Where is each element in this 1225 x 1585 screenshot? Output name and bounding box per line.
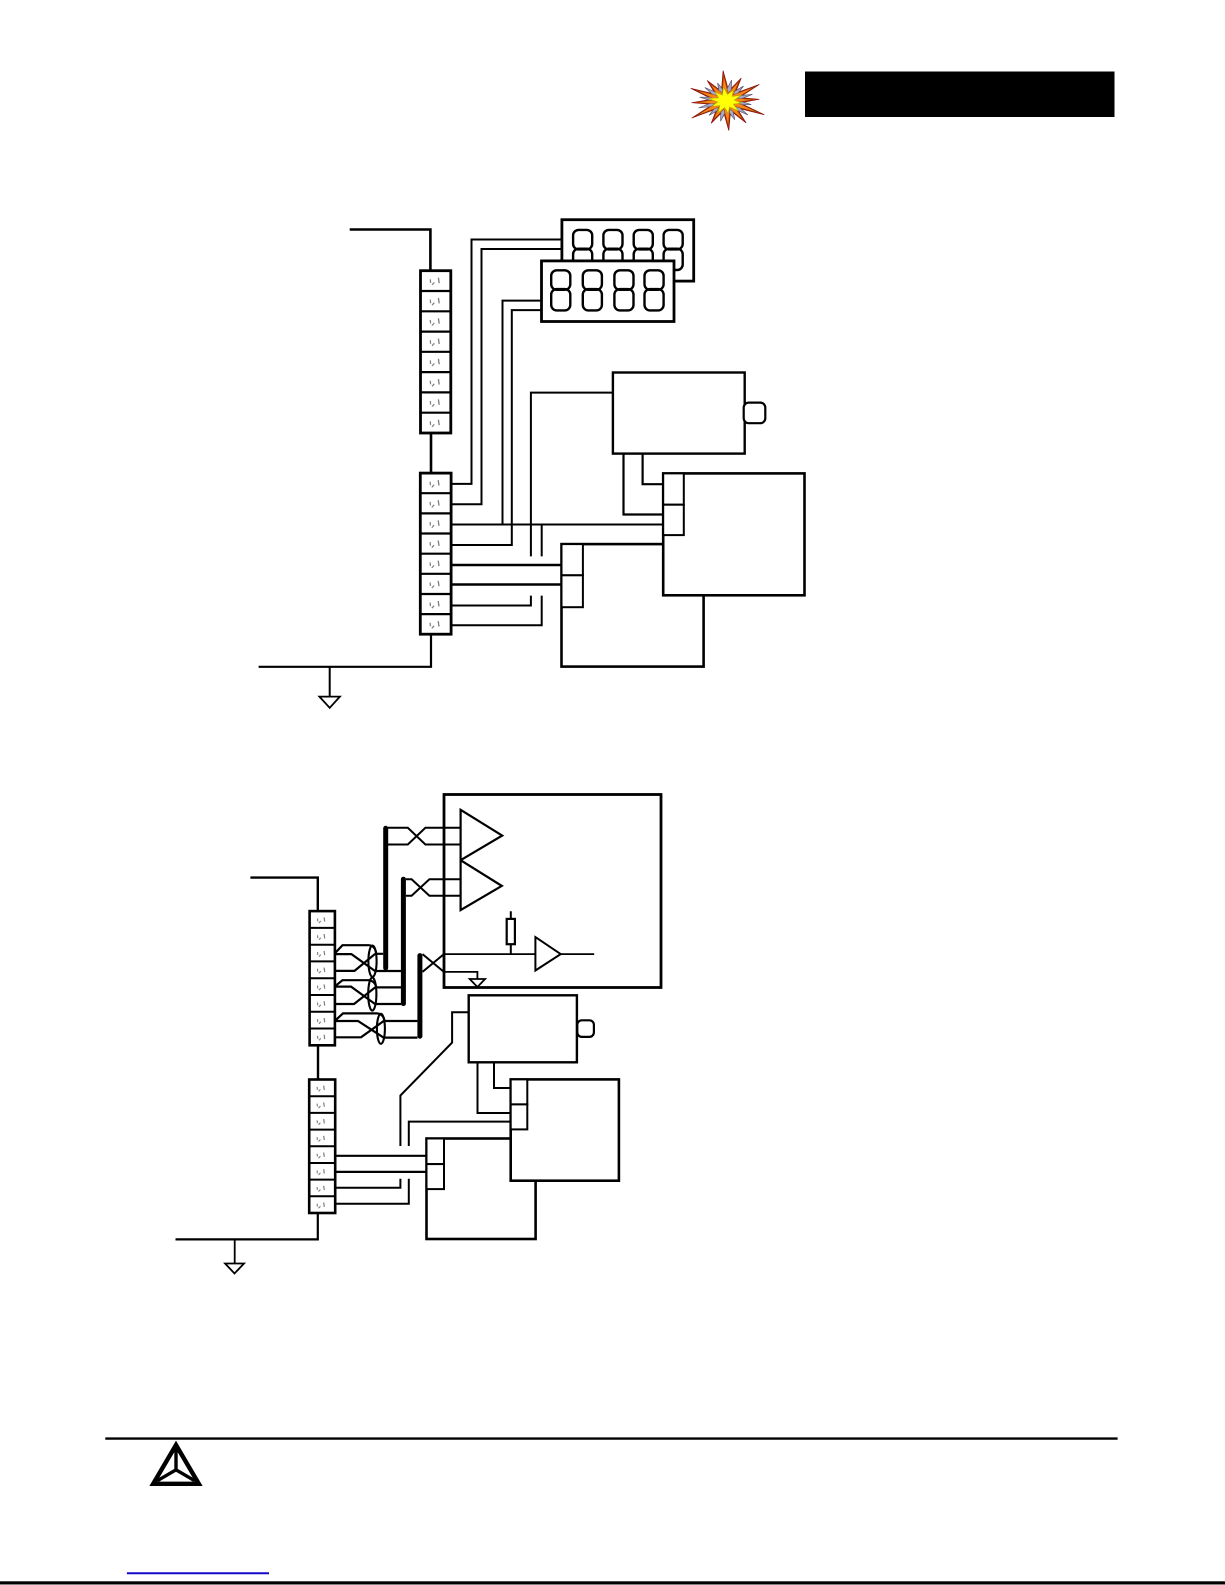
wire from supply rail to resistor network RN3 [250, 878, 317, 912]
footer hyperlink underline [127, 1572, 269, 1574]
oscillator module Y2 [469, 995, 594, 1062]
wire RN3 to RN4 [317, 1045, 319, 1079]
wire RN4 row6 to U5 pin box 2 [335, 1171, 426, 1173]
wire branch to DS2 upper [503, 301, 542, 525]
speaker/amp triangle SP2 [461, 860, 502, 910]
wire to internal ground of U3 [444, 972, 478, 979]
ground rail wire (circuit 1) [259, 634, 431, 667]
twisted pair TP1 (rows 3-4 to bus1/bus2) [335, 945, 401, 977]
resistor network RN3 (upper 8 elements) [310, 911, 335, 1045]
7-segment display DS1 (rear 4-digit block) [562, 220, 694, 281]
wire bus2 pair to SP2 (crossover) [406, 879, 461, 895]
black title bar [805, 72, 1115, 118]
wire RN2 row7 up to oscillator Y1 (with crossover gaps) [451, 393, 613, 606]
resistor network RN4 (lower 8 elements) [309, 1080, 335, 1214]
wire RN2 row3 to U1 pin box 2 [451, 524, 663, 526]
bus bar B3 (thick) [417, 956, 422, 1037]
wire RN4 row8 to U4 pin box 2 (with crossover gaps) [335, 1122, 511, 1204]
wire RN2 row8 up to row3 net (with crossover gaps) [451, 525, 542, 626]
buffer amp A1 [535, 937, 560, 970]
footer company triangle logo [153, 1445, 199, 1484]
ground symbol (circuit 2) [225, 1239, 244, 1273]
bus bar B2 (thick) [401, 879, 406, 1003]
twisted pair TP3 (rows 7-8 to bus3) [335, 1013, 417, 1043]
twisted pair TP2 (rows 5-6 to bus2) [335, 978, 401, 1011]
bus bar B1 (thick) [383, 828, 388, 968]
resistor network RN2 (lower 8 elements) [420, 473, 451, 634]
oscillator module Y1 [613, 373, 765, 454]
IC U2 (lower-left block with two pin boxes) [562, 544, 704, 667]
wire RN1 to RN2 [430, 433, 433, 473]
internal ground symbol (U3) [470, 979, 485, 987]
resistor R1 [507, 911, 515, 954]
wire RN2 row5 to U2 pin box 1 [451, 564, 561, 566]
speaker/amp triangle SP1 [461, 810, 503, 860]
wire RN4 row7 up to oscillator Y2 (diagonal, with crossover gaps) [335, 1012, 469, 1187]
wire RN2 row6 to U2 pin box 2 [451, 583, 561, 585]
IC U1 (main controller block with two pin boxes) [663, 473, 804, 595]
wire bus3 pair crossover to buffer line and internal ground [423, 954, 444, 972]
footer horizontal rule [105, 1437, 1117, 1439]
wire oscillator Y2 pin to U4 pin box 1 [494, 1062, 511, 1088]
wire from supply rail to resistor network RN1 [350, 230, 431, 271]
ground symbol (circuit 1) [319, 667, 340, 708]
main unit block U3 (large outline) [444, 795, 661, 988]
wire oscillator Y1 pin OSC1 to U1 pin box 2 [624, 454, 664, 515]
company starburst logo [691, 71, 765, 131]
wire RN2 row4 to DS2 [451, 310, 541, 545]
ground rail wire (circuit 2) [176, 1213, 318, 1239]
IC U5 (lower-left block with two pin boxes) [427, 1139, 536, 1240]
wire RN2 row1 to DS1 [451, 240, 562, 484]
wire oscillator Y1 pin OSC2 to U1 pin box 1 [643, 454, 664, 485]
page bottom border [0, 1581, 1225, 1584]
IC U4 (controller block with two pin boxes) [511, 1079, 619, 1180]
signal line into buffer A1 [444, 953, 594, 955]
resistor network RN1 (upper 8 elements) [421, 271, 451, 433]
wire RN4 row5 to U5 pin box 1 [335, 1155, 426, 1157]
7-segment display DS2 (front 4-digit block) [542, 261, 675, 322]
wire bus1 pair to SP1 (crossover) [388, 828, 461, 845]
wire oscillator Y2 pin to U4 pin box 2 [478, 1062, 511, 1113]
wire RN2 row2 to DS1 [451, 249, 562, 504]
